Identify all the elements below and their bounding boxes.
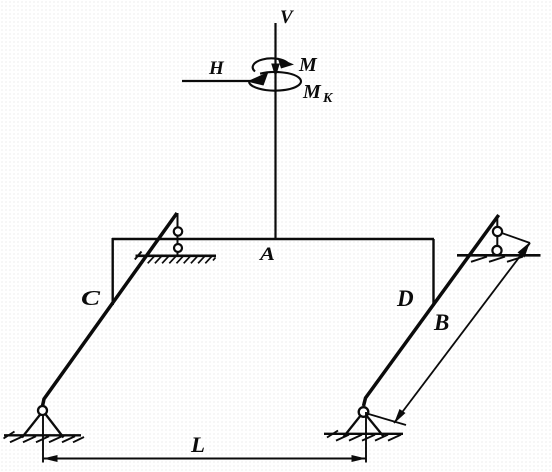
dimension B line [394,243,530,423]
right top leader line [498,232,531,244]
plate right edge [432,239,434,306]
bottom right support hinge [359,407,369,417]
bottom left support hatching [10,436,84,442]
left hanger link [177,213,179,255]
svg-text:K: K [322,91,334,106]
bottom left support end tick [4,432,15,439]
right hanger upper hinge [493,227,502,236]
dimension L left arrowhead [43,455,58,462]
right top support ground line [457,254,541,257]
svg-text:A: A [259,244,275,265]
bottom right support left leg [344,415,362,437]
dimension L line [43,458,366,460]
right hanger link [496,216,498,251]
force V line [274,23,276,238]
bar C [43,213,178,406]
right hanger lower hinge [492,246,501,255]
moment M arrowhead [278,58,295,69]
right top support hatching [471,257,523,262]
plate top edge [112,238,434,240]
moment M arc [253,58,288,71]
bottom right support hatching [336,435,401,441]
bar D [364,215,499,406]
force V arrowhead [271,64,280,78]
bottom right support ground line [324,433,403,435]
bottom left support left leg [22,414,41,438]
plate left edge [111,238,113,305]
bottom left support post [42,411,44,446]
svg-text:M: M [298,54,318,76]
left top support ground line [136,255,217,258]
torque MK ellipse [249,72,301,91]
bottom left support hinge [38,406,47,415]
left top support end tick [135,252,142,260]
bottom left support right leg [45,414,64,438]
svg-text:V: V [280,7,294,28]
svg-text:B: B [433,310,449,335]
left hanger upper hinge [174,227,182,235]
bottom left support ground line [4,434,81,436]
dimension L right extension line [365,412,367,463]
svg-text:H: H [208,58,225,79]
bottom right support end tick [327,431,338,438]
force H line [182,80,252,82]
svg-text:C: C [81,286,101,310]
svg-text:M: M [302,81,322,103]
bottom right leader line [364,413,407,426]
svg-text:D: D [396,286,414,311]
left hanger lower hinge [174,244,182,252]
bottom right support right leg [366,415,384,437]
dimension B top arrowhead [518,242,531,258]
dimension L right arrowhead [352,455,367,462]
dimension L left extension line [42,446,44,463]
dimension B bottom arrowhead [394,409,406,424]
svg-text:L: L [190,432,205,457]
left top support hatching [141,256,216,263]
torque MK / H arrowhead [247,72,269,86]
